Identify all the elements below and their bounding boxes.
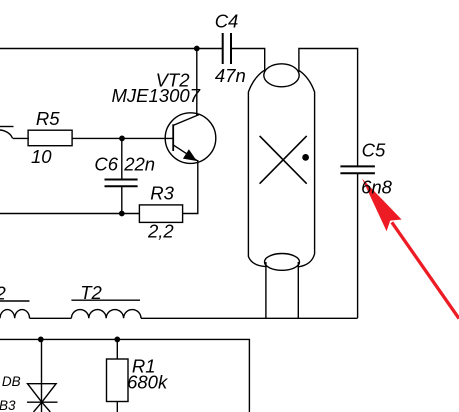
svg-text:2: 2 — [0, 282, 7, 303]
svg-text:2,2: 2,2 — [147, 221, 174, 242]
svg-text:680k: 680k — [127, 371, 169, 392]
svg-text:DB: DB — [2, 374, 21, 389]
svg-text:47n: 47n — [215, 65, 246, 86]
svg-text:R3: R3 — [150, 183, 174, 204]
svg-text:MJE13007: MJE13007 — [112, 85, 201, 106]
svg-text:R5: R5 — [36, 108, 60, 129]
svg-text:10: 10 — [31, 146, 52, 167]
svg-text:C6: C6 — [94, 154, 118, 175]
svg-text:22n: 22n — [123, 154, 155, 175]
svg-text:6n8: 6n8 — [361, 177, 393, 198]
svg-text:T2: T2 — [80, 282, 102, 303]
svg-text:B3: B3 — [0, 398, 16, 412]
svg-text:C4: C4 — [215, 11, 239, 32]
svg-text:C5: C5 — [362, 140, 386, 161]
